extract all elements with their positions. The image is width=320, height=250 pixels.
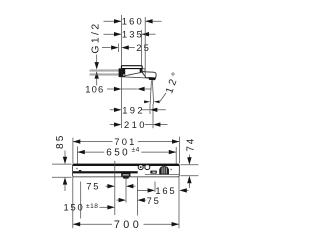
extension line B [125,177,127,202]
svg-text:135: 135 [122,29,144,40]
extension line 135 right [141,30,143,66]
dimension 75 second [117,195,161,206]
85 dimension left [52,133,72,191]
mixer body side view: shelf top bar [121,66,142,73]
bar top band [73,164,180,166]
extension line C [136,177,138,215]
svg-text:160: 160 [122,16,144,27]
extension line 192 right [149,104,151,114]
wall union nut [119,68,126,77]
wall extension line [120,15,122,128]
extension line 160 right [144,17,146,78]
extension line 150 left [80,182,82,219]
svg-text:210: 210 [124,119,147,130]
spout step [142,69,145,72]
svg-text:G1/2: G1/2 [91,21,102,53]
12 degree label [164,68,183,95]
dimension 135 [104,29,156,40]
extension line below bar far left [72,177,74,228]
svg-text:650: 650 [106,148,130,159]
extension line 650 right [175,147,177,164]
spout aerator tip [149,77,156,80]
svg-text:25: 25 [136,42,151,53]
select button 2 [145,165,150,170]
left screw nub [79,170,81,171]
svg-text:±18: ±18 [86,203,98,210]
svg-text:±4: ±4 [132,146,140,153]
spout arm [142,72,156,78]
svg-text:75: 75 [86,181,100,192]
dimension 106 [85,83,151,94]
G1/2 leader arrows [95,55,99,86]
12 degree wedge lines [150,80,153,104]
extension line above bar right [178,137,180,164]
extension line D handle left [154,182,156,193]
right mark [170,169,171,170]
dimension 192 [110,105,166,116]
dimension 75 first [86,181,135,192]
bar outer outline [73,164,180,177]
tub spout outlet [121,171,130,178]
left screw cross [76,168,77,169]
dimension 165 [137,185,188,196]
svg-text:75: 75 [147,195,161,206]
G1/2 label [91,21,102,53]
dimension 701 [73,136,179,147]
dimension 700 [73,219,179,231]
safety button under handle [150,171,156,174]
extension line 25 left [118,44,120,53]
dimension 650 +-4 [77,146,176,158]
body outline with sloped underside [122,69,150,79]
74 dimension right [180,137,198,188]
dimension 160 [104,16,162,27]
extension line below bar far right [178,177,180,228]
extension line 210 right [152,104,154,128]
extension line above bar left [72,138,74,164]
svg-text:74: 74 [186,137,197,152]
supply pipes [90,70,119,75]
svg-text:106: 106 [85,83,104,94]
select button 1 [138,165,143,170]
svg-text:192: 192 [122,105,145,116]
extension line A below outlet [114,161,116,215]
svg-text:150: 150 [64,202,85,213]
svg-text:85: 85 [55,133,66,149]
svg-text:701: 701 [114,136,136,147]
dimension 150 +-18 [64,202,115,213]
svg-text:700: 700 [114,219,142,231]
handle dome [159,166,169,175]
dimension 210 [110,119,168,130]
extension line 650 left [76,147,78,164]
bar mid band [73,171,179,174]
12 degree arrows [144,93,166,103]
dimension 25 [102,42,151,53]
